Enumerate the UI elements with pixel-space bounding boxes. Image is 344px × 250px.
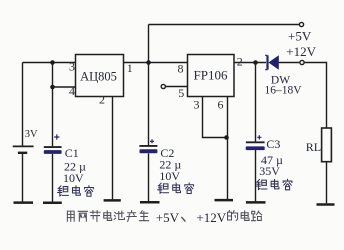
svg-text:10V: 10V [159, 169, 180, 183]
svg-text:3V: 3V [25, 129, 38, 140]
svg-text:+12V: +12V [286, 44, 316, 59]
svg-text:3: 3 [194, 98, 200, 112]
svg-text:5: 5 [178, 86, 184, 100]
svg-text:8: 8 [178, 62, 184, 76]
svg-text:C3: C3 [266, 137, 280, 151]
svg-text:2: 2 [99, 92, 105, 106]
svg-text:FP106: FP106 [194, 68, 228, 83]
svg-text:+5V: +5V [288, 29, 312, 44]
svg-text:АЦ805: АЦ805 [80, 70, 117, 84]
svg-text:1: 1 [127, 61, 133, 75]
svg-text:6: 6 [218, 98, 224, 112]
svg-text:16–18V: 16–18V [264, 85, 302, 97]
svg-text:RL: RL [306, 140, 321, 154]
svg-text:2: 2 [237, 55, 243, 69]
svg-text:+12V: +12V [196, 210, 226, 225]
svg-text:3: 3 [69, 59, 75, 73]
svg-text:10V: 10V [63, 171, 84, 185]
svg-text:35V: 35V [259, 164, 280, 178]
svg-text:4: 4 [69, 84, 75, 98]
svg-text:+5V: +5V [156, 210, 180, 225]
svg-text:C1: C1 [65, 146, 79, 160]
